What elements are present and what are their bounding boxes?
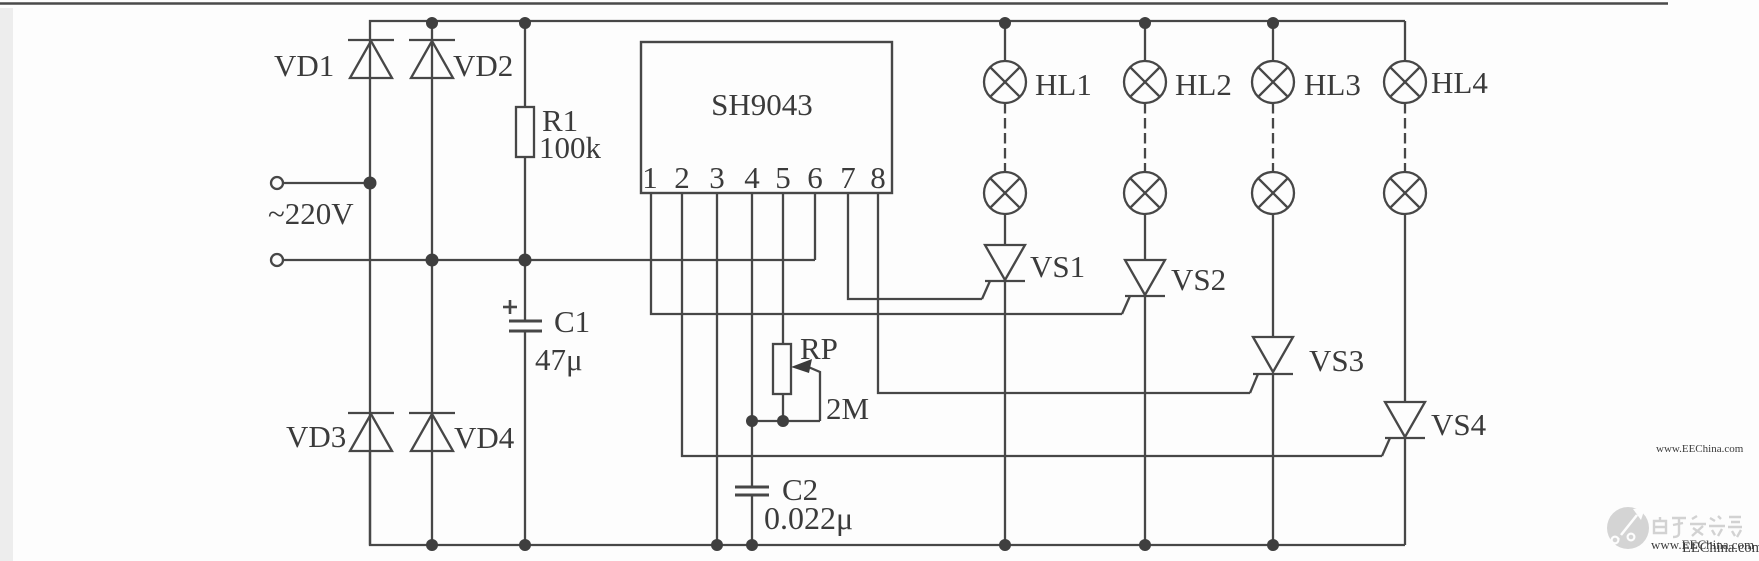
wire pin7 to VS1 gate xyxy=(848,193,982,299)
svg-text:4: 4 xyxy=(744,160,760,195)
lamp column HL2 xyxy=(1124,21,1166,260)
lamp column HL3 xyxy=(1252,21,1294,337)
op-amp U1 SH9043 box xyxy=(641,42,892,193)
svg-text:RP: RP xyxy=(800,331,838,366)
svg-text:7: 7 xyxy=(840,160,856,195)
svg-text:HL3: HL3 xyxy=(1304,67,1361,102)
node bottom VD4 xyxy=(426,539,438,551)
svg-text:EEChina.com: EEChina.com xyxy=(1682,540,1759,556)
svg-text:VS1: VS1 xyxy=(1030,249,1085,284)
svg-text:8: 8 xyxy=(870,160,886,195)
svg-text:VD2: VD2 xyxy=(453,48,513,83)
terminal input 1 xyxy=(271,177,283,189)
node top VD2 xyxy=(426,17,438,29)
diode VD2 xyxy=(409,40,455,78)
svg-text:1: 1 xyxy=(642,160,658,195)
wire pin4 to C2 xyxy=(751,193,753,487)
thyristor VS1 xyxy=(982,245,1025,545)
svg-text:2M: 2M xyxy=(826,391,869,426)
lamp column HL4 xyxy=(1384,21,1426,402)
node top HL1 xyxy=(999,17,1011,29)
node top HL2 xyxy=(1139,17,1151,29)
svg-text:HL4: HL4 xyxy=(1431,65,1488,100)
lamp column HL1 xyxy=(984,21,1026,245)
node bottom VS1 xyxy=(999,539,1011,551)
svg-text:www.EEChina.com: www.EEChina.com xyxy=(1656,443,1744,455)
node top R1 xyxy=(519,17,531,29)
svg-text:6: 6 xyxy=(807,160,823,195)
svg-text:VD3: VD3 xyxy=(286,419,346,454)
wire pin1 to VS2 gate xyxy=(651,193,1122,314)
node rail R1 C1 xyxy=(519,254,532,267)
left page edge band xyxy=(0,8,13,561)
svg-text:100k: 100k xyxy=(539,130,602,165)
svg-text:47μ: 47μ xyxy=(535,342,583,377)
wire pin2 to VS4 gate xyxy=(682,193,1382,456)
wire terminal2 rail to pin6 xyxy=(283,259,815,261)
wire pin8 to VS3 gate xyxy=(878,193,1250,393)
diode VD4 xyxy=(409,413,455,451)
svg-text:HL1: HL1 xyxy=(1035,67,1092,102)
thyristor VS4 xyxy=(1382,402,1425,545)
wire top rail xyxy=(370,21,1405,545)
svg-text:5: 5 xyxy=(775,160,791,195)
polarity plus C1 xyxy=(503,300,517,314)
svg-text:2: 2 xyxy=(674,160,690,195)
diode VD1 xyxy=(348,40,394,78)
node terminal1 VD1 xyxy=(364,177,377,190)
RP wiper arrow xyxy=(791,359,820,421)
node bottom VS2 xyxy=(1139,539,1151,551)
svg-text:VS4: VS4 xyxy=(1431,407,1487,442)
svg-text:C1: C1 xyxy=(554,304,590,339)
node wiper RP xyxy=(777,415,789,427)
svg-text:VD4: VD4 xyxy=(454,420,515,455)
watermark chinese characters xyxy=(1654,516,1742,537)
node bottom C2 xyxy=(746,539,758,551)
node bottom VS3 xyxy=(1267,539,1279,551)
svg-text:VS3: VS3 xyxy=(1309,343,1364,378)
resistor R1 xyxy=(516,21,534,321)
top border frame line xyxy=(0,2,1668,5)
thyristor VS2 xyxy=(1122,260,1165,545)
terminal input 2 xyxy=(271,254,283,266)
wire pin5 to RP xyxy=(782,193,784,344)
wire VD2 column xyxy=(431,21,433,545)
wire terminal1 to node xyxy=(283,182,370,184)
svg-text:0.022μ: 0.022μ xyxy=(764,500,853,536)
wire pin3 to ground rail xyxy=(716,193,718,545)
node bottom C1 xyxy=(519,539,531,551)
wire pin6 to supply node xyxy=(814,193,816,260)
capacitor C1 xyxy=(509,321,542,545)
diode VD3 xyxy=(348,413,394,451)
wire bottom rail xyxy=(370,452,1405,545)
thyristor VS3 xyxy=(1250,337,1293,545)
node wiper pin4 xyxy=(746,415,758,427)
node bottom pin3 xyxy=(711,539,723,551)
svg-text:HL2: HL2 xyxy=(1175,67,1232,102)
watermark logo EEChina xyxy=(1607,443,1759,556)
svg-text:VS2: VS2 xyxy=(1171,262,1226,297)
svg-text:3: 3 xyxy=(709,160,725,195)
svg-text:~220V: ~220V xyxy=(268,196,354,231)
node top HL3 xyxy=(1267,17,1279,29)
node rail VD2 xyxy=(426,254,439,267)
svg-text:SH9043: SH9043 xyxy=(711,87,813,122)
capacitor C2 xyxy=(735,487,769,545)
wire wiper bus xyxy=(752,420,820,422)
potentiometer RP xyxy=(773,344,791,421)
svg-text:VD1: VD1 xyxy=(274,48,334,83)
